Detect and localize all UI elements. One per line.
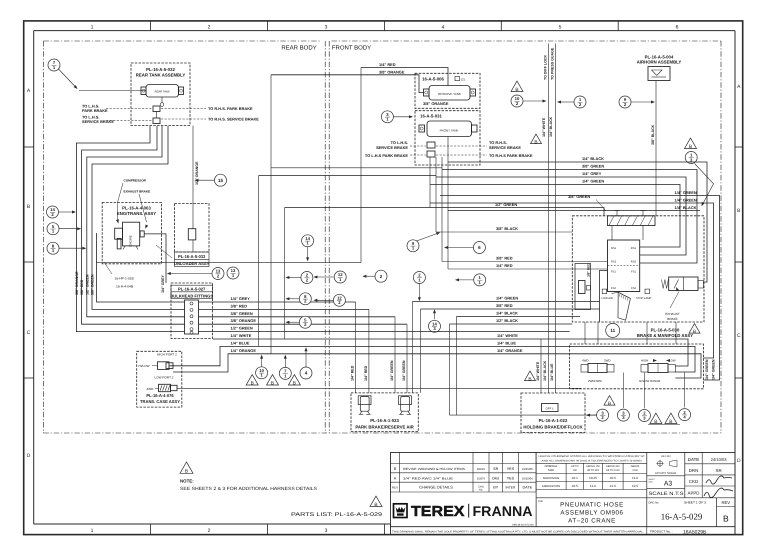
svg-text:HOLDING BRAKE/DIFFLOCK: HOLDING BRAKE/DIFFLOCK [523, 424, 583, 429]
svg-text:3/8" GREEN: 3/8" GREEN [91, 274, 95, 295]
svg-text:LOW PORT 2: LOW PORT 2 [155, 376, 174, 380]
wire high port to blue [169, 346, 695, 372]
svg-text:B: B [185, 468, 188, 474]
svg-text:UP TO 1000: UP TO 1000 [606, 469, 620, 472]
revision triangle right [685, 138, 697, 148]
wire 3/8 orange to reserve tank [271, 75, 424, 93]
svg-text:TO R.H.S PARK BRAKE: TO R.H.S PARK BRAKE [489, 153, 533, 158]
svg-text:UP TO 300: UP TO 300 [587, 469, 600, 472]
leader 8/2 [285, 297, 299, 300]
svg-text:1/4" ORANGE: 1/4" ORANGE [497, 348, 523, 353]
leader 12/2 [313, 299, 333, 302]
svg-text:NOTE:: NOTE: [180, 479, 194, 484]
leader 2/4 [684, 373, 686, 408]
balloon 3/1 [381, 111, 393, 123]
svg-text:AT–20 CRANE: AT–20 CRANE [568, 517, 616, 524]
wire row 1/4 white 339 [213, 339, 688, 366]
wire bulkhead row green [199, 316, 396, 318]
wire bulkhead row orange [199, 323, 408, 325]
balloon 14/3 [429, 320, 441, 332]
difflock switch [542, 404, 559, 412]
svg-text:PL-16-A-4-076: PL-16-A-4-076 [146, 393, 174, 398]
stop lamp switch [636, 289, 651, 300]
svg-text:B: B [394, 467, 397, 471]
svg-text:1/4" ORANGE: 1/4" ORANGE [231, 348, 257, 353]
svg-text:UNLOADER ASSY: UNLOADER ASSY [174, 261, 210, 266]
svg-text:DO NOT SCALE: DO NOT SCALE [655, 471, 676, 475]
svg-text:1/2" GREEN: 1/2" GREEN [231, 326, 253, 331]
svg-text:RS2: RS2 [631, 261, 637, 264]
rear tank park brake fitting [153, 106, 160, 118]
svg-text:1/4" BLACK: 1/4" BLACK [582, 156, 604, 161]
svg-text:FS1: FS1 [611, 271, 616, 274]
svg-text:1/4" BLUE: 1/4" BLUE [497, 340, 516, 345]
leader eng box diagonal [156, 245, 172, 258]
wire row 415 [450, 414, 597, 416]
leader balloon 15 [195, 179, 215, 182]
product number cell [647, 527, 707, 536]
svg-text:EXHAUST BRAKE: EXHAUST BRAKE [124, 190, 151, 194]
svg-text:ABOVE: ABOVE [631, 465, 640, 468]
front tank fitting upper [427, 142, 435, 148]
svg-text:B: B [693, 329, 696, 335]
svg-text:RS1: RS1 [631, 247, 637, 250]
wire drop 407 green [406, 324, 408, 393]
balloon 14/2 [47, 206, 59, 218]
wire center horizontal 175 [259, 175, 436, 177]
phantom chassis outline border [43, 41, 721, 433]
manifold inlet [608, 211, 656, 241]
4wd actuator [147, 384, 178, 391]
wire row 1/4 green 203 [430, 203, 714, 358]
svg-text:1/4" BLUE: 1/4" BLUE [231, 340, 250, 345]
wire to press gauge [554, 44, 556, 394]
svg-text:REVISE 2WD/4WD & HI/LOW ITEMS: REVISE 2WD/4WD & HI/LOW ITEMS [403, 467, 465, 471]
svg-text:SERVICE BRAKE: SERVICE BRAKE [376, 145, 408, 150]
svg-text:SEE SHEETS 2 & 3 FOR ADDITIONA: SEE SHEETS 2 & 3 FOR ADDITIONAL HARNESS … [180, 486, 317, 491]
svg-text:3/8" RED: 3/8" RED [231, 303, 248, 308]
wire drop 541 white [540, 339, 542, 393]
svg-text:3/8" RED: 3/8" RED [496, 303, 513, 308]
reserve tank [424, 86, 476, 101]
engine [123, 222, 140, 247]
svg-text:PL-16-A-5-032: PL-16-A-5-032 [146, 67, 175, 72]
airhorn assembly PL-16-A-5-004 [637, 54, 682, 80]
svg-text:UNLESS OTHERWISE STATED ALL WE: UNLESS OTHERWISE STATED ALL WELDING TO W… [539, 455, 646, 458]
svg-text:3: 3 [325, 528, 328, 534]
svg-text:1/2" GREEN: 1/2" GREEN [85, 274, 89, 295]
wire row 1/4 black 210 [448, 210, 700, 212]
svg-text:LOW: LOW [669, 359, 676, 363]
svg-text:PNEUMATIC HOSE: PNEUMATIC HOSE [560, 502, 624, 509]
wire row 1/4 grey 177 [436, 177, 686, 255]
svg-text:INTER: INTER [505, 486, 516, 490]
svg-text:B: B [723, 514, 729, 524]
svg-text:B: B [374, 502, 377, 508]
revision triangle above 3/2 [604, 396, 615, 406]
svg-text:1/4" GREEN: 1/4" GREEN [496, 296, 518, 301]
leader 12/1 [313, 276, 334, 279]
svg-text:1/4" RED: 1/4" RED [496, 263, 513, 268]
wire row 3/8 red 309 [421, 308, 600, 310]
svg-text:B: B [515, 87, 518, 93]
svg-text:4WD: 4WD [147, 387, 155, 391]
unloader valve [188, 229, 196, 240]
wire fs1 down [600, 271, 608, 323]
svg-text:A3: A3 [664, 481, 673, 488]
svg-text:1/4" GREEN: 1/4" GREEN [390, 360, 394, 381]
leader lhs park brake [106, 108, 152, 110]
wire manifold to valves 3 [646, 322, 648, 344]
leader 2/3 [643, 373, 645, 409]
wire center horizontal 262 [97, 262, 362, 264]
revision triangle note [180, 462, 193, 473]
wire center vertical a [270, 75, 272, 354]
svg-text:(2): (2) [461, 77, 465, 81]
svg-text:1/4" BLACK: 1/4" BLACK [496, 311, 518, 316]
leader lhs service brake [106, 120, 152, 122]
svg-text:3/8" RED: 3/8" RED [587, 263, 591, 277]
svg-text:1/4" RED: 1/4" RED [379, 62, 396, 67]
svg-text:HIGH: HIGH [641, 359, 648, 363]
svg-text:FS2: FS2 [631, 287, 636, 290]
balloon 10/1 [256, 367, 268, 379]
svg-text:15: 15 [218, 178, 224, 183]
svg-text:16-H-4-04B: 16-H-4-04B [116, 285, 134, 289]
svg-text:A: A [394, 476, 397, 480]
balloon 14/1 [302, 235, 314, 247]
wire drop 368 red [368, 309, 370, 393]
leader balloon 9/2 [631, 101, 655, 104]
svg-text:SHEET 1 OF 3: SHEET 1 OF 3 [684, 500, 706, 504]
svg-text:HIGH PORT 2: HIGH PORT 2 [157, 353, 177, 357]
front tank [419, 121, 477, 137]
leader 4 row [305, 347, 308, 367]
leader front rhs service [436, 145, 487, 147]
wire manifold to valves 4 [675, 322, 677, 344]
leader front lhs service [410, 145, 426, 147]
bottom margin zone ticks and numbers [91, 524, 385, 535]
wire 1/2 orange rear tank to unloader [192, 126, 194, 229]
engine mount feet [123, 246, 138, 250]
svg-text:CKD: CKD [689, 479, 698, 484]
wire to diff lock [547, 44, 549, 394]
svg-text:SR: SR [493, 467, 498, 471]
label exhaust brake right [665, 292, 680, 322]
svg-text:EXHAUST: EXHAUST [665, 312, 680, 316]
leader 3/3 [622, 373, 624, 409]
svg-text:DRN: DRN [689, 468, 699, 473]
svg-text:TO DIFF LOCK: TO DIFF LOCK [544, 55, 548, 80]
revision triangle above 10/2 [511, 81, 523, 91]
date/drn/ckd/appd cells [685, 453, 735, 498]
wire center vertical d [284, 208, 286, 340]
svg-text:11: 11 [610, 328, 615, 333]
svg-text:SERVICE BRAKE: SERVICE BRAKE [82, 119, 114, 124]
park brake reserve air box PL-16-A-1-023 [351, 393, 418, 432]
svg-text:YES: YES [507, 467, 515, 471]
svg-text:1000: 1000 [632, 469, 638, 472]
svg-text:4WD: 4WD [582, 359, 588, 363]
svg-text:B: B [528, 376, 531, 382]
leader front lhs park [410, 154, 426, 156]
leader 2/2 [285, 276, 301, 279]
svg-text:1/4" GREY: 1/4" GREY [582, 171, 602, 176]
svg-text:SCALE N.T.S: SCALE N.T.S [649, 491, 684, 497]
wire bulkhead row grey [199, 301, 356, 303]
svg-text:1/4" GREEN: 1/4" GREEN [675, 197, 697, 202]
svg-text:3/8" GREEN: 3/8" GREEN [582, 164, 604, 169]
rear/front body divider [325, 41, 329, 433]
wire drop 395 green [394, 317, 396, 393]
leader balloon 1/3 [695, 164, 714, 207]
front tank box 16-A-5-031 [415, 111, 480, 165]
svg-text:PL-16-A-5-027: PL-16-A-5-027 [178, 287, 206, 292]
svg-text:PL-16-A-1-023: PL-16-A-1-023 [370, 418, 399, 423]
svg-text:3/8" ORANGE: 3/8" ORANGE [75, 271, 79, 295]
svg-text:RS2: RS2 [611, 261, 617, 264]
label to lhs park brake [82, 103, 108, 113]
wire bulkhead row half green [199, 331, 570, 333]
label to lhs service brake [82, 114, 114, 124]
svg-text:DATE: DATE [688, 457, 699, 462]
svg-text:STOP LAMP: STOP LAMP [636, 297, 651, 300]
svg-text:1/4" BLUE: 1/4" BLUE [550, 363, 554, 381]
balloon 5/2 [299, 316, 311, 328]
svg-text:PL-16-A-4-063: PL-16-A-4-063 [122, 206, 151, 211]
leader front rhs park [436, 154, 487, 156]
leader 3/2 [586, 414, 597, 417]
revision triangle manifold [689, 324, 700, 334]
wire row 1/2 green [285, 208, 604, 216]
svg-text:3/8" ORANGE: 3/8" ORANGE [379, 70, 405, 75]
svg-text:BULKHEAD FITTINGS: BULKHEAD FITTINGS [170, 294, 213, 299]
wire drop 412 to park brake [411, 302, 413, 393]
balloon 4 row [300, 367, 312, 379]
svg-text:REAR TANK: REAR TANK [155, 91, 170, 94]
svg-text:PRODUCT No. :: PRODUCT No. : [650, 530, 673, 534]
wire center vertical c [258, 176, 260, 347]
leader hp labels [104, 262, 112, 274]
wire compressor line [97, 233, 185, 302]
valve triangles [648, 413, 680, 425]
svg-text:1/4" GREEN: 1/4" GREEN [675, 190, 697, 195]
revision triangle center [531, 134, 542, 144]
svg-text:SR: SR [716, 468, 722, 473]
park brake chamber 1 [358, 396, 371, 415]
wire drop 456 [455, 317, 457, 416]
svg-text:2: 2 [208, 528, 211, 534]
svg-text:RESERVE TANK: RESERVE TANK [438, 92, 461, 96]
wire bundle rear line 4 [92, 126, 185, 309]
svg-text:1: 1 [91, 24, 94, 30]
svg-text:D2976: D2976 [477, 477, 485, 480]
svg-text:B: B [271, 380, 274, 386]
svg-text:5: 5 [559, 24, 562, 30]
svg-text:1/4" WHITE: 1/4" WHITE [536, 361, 540, 381]
balloon 9/1 [407, 240, 419, 252]
revision table [391, 453, 537, 493]
svg-text:RS1: RS1 [611, 247, 617, 250]
leader balloon 8/1 [59, 247, 86, 250]
wire manifold to valves 2 [597, 322, 599, 344]
wire row 1/4 green 184 [430, 185, 680, 248]
svg-text:ABN 38 010 671 048: ABN 38 010 671 048 [512, 523, 534, 526]
leader balloon 14/1 [306, 247, 309, 262]
svg-text:3/8" ORANGE: 3/8" ORANGE [423, 101, 449, 106]
balloon 9/2 [619, 96, 631, 108]
leader 2 row277 [362, 275, 375, 278]
svg-text:6: 6 [676, 24, 679, 30]
leader balloon 9/1 [417, 231, 441, 241]
svg-text:AND ALL DIMENSIONS IN (mm) & T: AND ALL DIMENSIONS IN (mm) & TOLERENCED … [542, 459, 642, 462]
leader 5/2 [285, 321, 299, 324]
svg-text:FS1: FS1 [631, 271, 636, 274]
svg-text:PARK BRAKE: PARK BRAKE [82, 108, 108, 113]
wire center horizontal 167 [271, 167, 442, 169]
leader balloon 3/1 [393, 115, 413, 118]
label to rhs service brake front [489, 140, 521, 150]
manifold block [608, 240, 640, 292]
svg-text:D: D [27, 453, 31, 459]
svg-text:±2.5: ±2.5 [632, 484, 638, 488]
wire bundle rear line 3 [87, 126, 185, 317]
svg-text:1/4" WHITE: 1/4" WHITE [231, 333, 252, 338]
leader balloon 5/1 [59, 227, 81, 230]
rear tank drain fitting [160, 97, 164, 106]
svg-text:C: C [737, 333, 741, 339]
svg-text:AIRHORN ASSEMBLY: AIRHORN ASSEMBLY [637, 60, 682, 65]
svg-text:±0.25: ±0.25 [589, 476, 597, 480]
wire row 1/4 black 162 [448, 162, 707, 282]
svg-text:B: B [608, 401, 611, 407]
wire unloader valve down [192, 240, 194, 252]
projection and scale cells [647, 453, 685, 498]
low air switch [602, 289, 613, 300]
revision triangle parts list [370, 496, 382, 506]
wire center vertical b [360, 68, 362, 263]
svg-text:BRAKE: BRAKE [667, 317, 678, 321]
leader rhs service brake [161, 118, 206, 120]
svg-text:B: B [689, 144, 692, 150]
wire bundle rear line 2 [82, 126, 185, 324]
top margin zone ticks and numbers [91, 21, 679, 31]
svg-text:3/8" GREEN: 3/8" GREEN [568, 194, 590, 199]
rear tank assembly box PL-16-A-5-032 [131, 63, 190, 126]
label exhaust brake [124, 190, 151, 230]
svg-text:1/4" RED: 1/4" RED [364, 365, 368, 381]
balloon 2/3 [638, 410, 650, 422]
svg-text:150: 150 [573, 469, 578, 472]
wire row 1/4 red 269 [448, 268, 608, 270]
dcv valve [575, 263, 591, 310]
svg-text:1/4" BLACK: 1/4" BLACK [543, 360, 547, 381]
leader balloon 2/1 [418, 284, 421, 302]
svg-text:FRANNA: FRANNA [473, 503, 533, 519]
svg-text:PL-16-A-5-030: PL-16-A-5-030 [651, 327, 680, 332]
svg-text:C: C [27, 330, 31, 336]
svg-text:±0.5: ±0.5 [610, 476, 616, 480]
svg-text:FS2: FS2 [611, 287, 616, 290]
svg-text:TO L.H.S PARK BRAKE: TO L.H.S PARK BRAKE [365, 153, 408, 158]
hi/low actuator [139, 362, 174, 370]
wire row 1/2 black 324 [450, 323, 573, 325]
wire row 3/8 black [436, 231, 572, 233]
svg-text:16-HP-1-01B: 16-HP-1-01B [115, 277, 135, 281]
svg-text:1: 1 [91, 528, 94, 534]
balloon 10/2 [511, 95, 523, 107]
svg-text:ABOVE 300: ABOVE 300 [606, 465, 620, 468]
balloon 1/2 [574, 96, 586, 108]
svg-text:3/8" RED: 3/8" RED [496, 256, 513, 261]
wire 3/8 black airhorn [655, 81, 657, 216]
wire drop 449 [449, 324, 451, 415]
svg-text:MACHINING: MACHINING [543, 476, 559, 480]
svg-text:ABOVE 150: ABOVE 150 [586, 465, 600, 468]
wire front tank drop 4 [447, 137, 449, 270]
svg-text:2WD: 2WD [604, 359, 610, 363]
svg-text:B: B [293, 380, 296, 386]
valve box 2wd/4wd hi/low [570, 344, 704, 389]
svg-text:YES: YES [507, 476, 515, 480]
svg-text:1/4" WHITE: 1/4" WHITE [497, 333, 518, 338]
svg-text:1/4" GREEN: 1/4" GREEN [402, 360, 406, 381]
svg-text:HI/LOW: HI/LOW [139, 364, 150, 368]
svg-text:Title: Title [538, 500, 543, 503]
svg-text:B: B [654, 419, 657, 425]
holding brake difflock box PL-16-A-1-022 [521, 393, 585, 433]
svg-text:±1.0: ±1.0 [632, 476, 638, 480]
svg-text:D: D [737, 458, 741, 464]
unloader assy box PL-16-A-5-033 [174, 204, 210, 267]
wire low port to orange [173, 354, 701, 378]
svg-text:SERVICE BRAKE: SERVICE BRAKE [489, 145, 521, 150]
wire manifold to valves 1 [584, 322, 586, 344]
svg-text:16-A-5-006: 16-A-5-006 [422, 76, 444, 81]
brake pedal [612, 292, 631, 320]
svg-text:DATE: DATE [523, 486, 533, 490]
wire rear tank supply [79, 90, 146, 92]
svg-text:SIZE: SIZE [548, 468, 554, 472]
svg-text:REAR BODY: REAR BODY [281, 45, 316, 52]
svg-text:B: B [669, 419, 672, 425]
svg-text:1/4" GREEN: 1/4" GREEN [582, 179, 604, 184]
svg-text:3/8" GREEN: 3/8" GREEN [231, 311, 253, 316]
brake and manifold assy box PL-16-A-5-030 [572, 216, 704, 338]
svg-text:1/4" GREEN: 1/4" GREEN [705, 359, 709, 380]
leader 3/8 green 197 [596, 200, 606, 212]
svg-text:REV: REV [721, 500, 730, 505]
leader balloon 14/3 [433, 309, 436, 319]
wire row 1/4 green 301 [412, 301, 599, 303]
compressor outlet [117, 238, 121, 249]
balloon 15 [215, 174, 227, 186]
svg-text:TEREX: TEREX [411, 504, 465, 520]
svg-text:24/10/03: 24/10/03 [711, 457, 728, 462]
svg-text:No.: No. [479, 489, 483, 492]
exhaust brake valve assembly [662, 277, 704, 291]
leader balloon 1/1 [455, 278, 474, 281]
trans case assy box PL-16-A-4-076 [137, 351, 182, 407]
svg-text:AS 1100: AS 1100 [661, 455, 671, 458]
svg-text:ENGINE: ENGINE [129, 235, 133, 247]
svg-text:19/10/04: 19/10/04 [522, 476, 533, 480]
svg-text:1/2" BLACK: 1/2" BLACK [496, 318, 518, 323]
svg-text:BRAKE & MANIFOLD ASSY: BRAKE & MANIFOLD ASSY [637, 333, 693, 338]
balloon 3/2 [597, 409, 609, 421]
svg-text:FABRICATION: FABRICATION [542, 484, 560, 488]
wire row 3/8 green 169 [442, 170, 697, 264]
